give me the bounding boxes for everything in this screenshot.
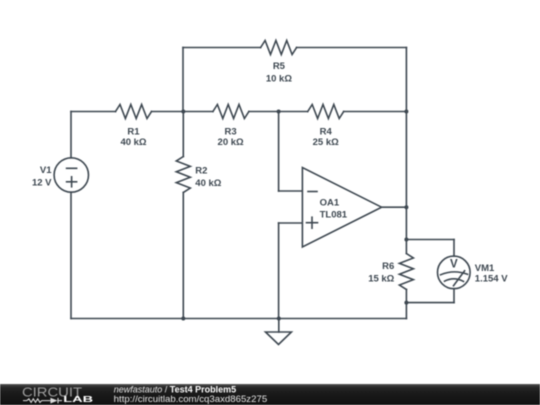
svg-text:R2: R2 xyxy=(195,166,207,177)
svg-text:10 kΩ: 10 kΩ xyxy=(266,74,292,85)
svg-text:R3: R3 xyxy=(225,126,237,137)
svg-text:LAB: LAB xyxy=(63,395,93,404)
svg-text:40 kΩ: 40 kΩ xyxy=(195,178,221,189)
svg-text:TL081: TL081 xyxy=(320,210,348,221)
svg-text:R1: R1 xyxy=(127,126,140,137)
svg-text:http://circuitlab.com/cq3axd86: http://circuitlab.com/cq3axd865z275 xyxy=(114,394,268,404)
svg-text:1.154 V: 1.154 V xyxy=(475,273,508,284)
svg-text:OA1: OA1 xyxy=(320,198,340,209)
svg-text:R6: R6 xyxy=(382,261,394,272)
svg-text:25 kΩ: 25 kΩ xyxy=(313,137,339,148)
svg-text:R5: R5 xyxy=(273,61,286,72)
svg-text:VM1: VM1 xyxy=(475,263,495,274)
svg-text:15 kΩ: 15 kΩ xyxy=(368,273,394,284)
svg-text:V1: V1 xyxy=(40,165,52,176)
svg-text:V: V xyxy=(450,259,458,271)
svg-text:12 V: 12 V xyxy=(32,177,52,188)
svg-text:40 kΩ: 40 kΩ xyxy=(120,137,146,148)
svg-text:newfastauto / Test4 Problem5: newfastauto / Test4 Problem5 xyxy=(114,385,236,395)
svg-text:20 kΩ: 20 kΩ xyxy=(218,137,244,148)
svg-text:R4: R4 xyxy=(320,126,333,137)
